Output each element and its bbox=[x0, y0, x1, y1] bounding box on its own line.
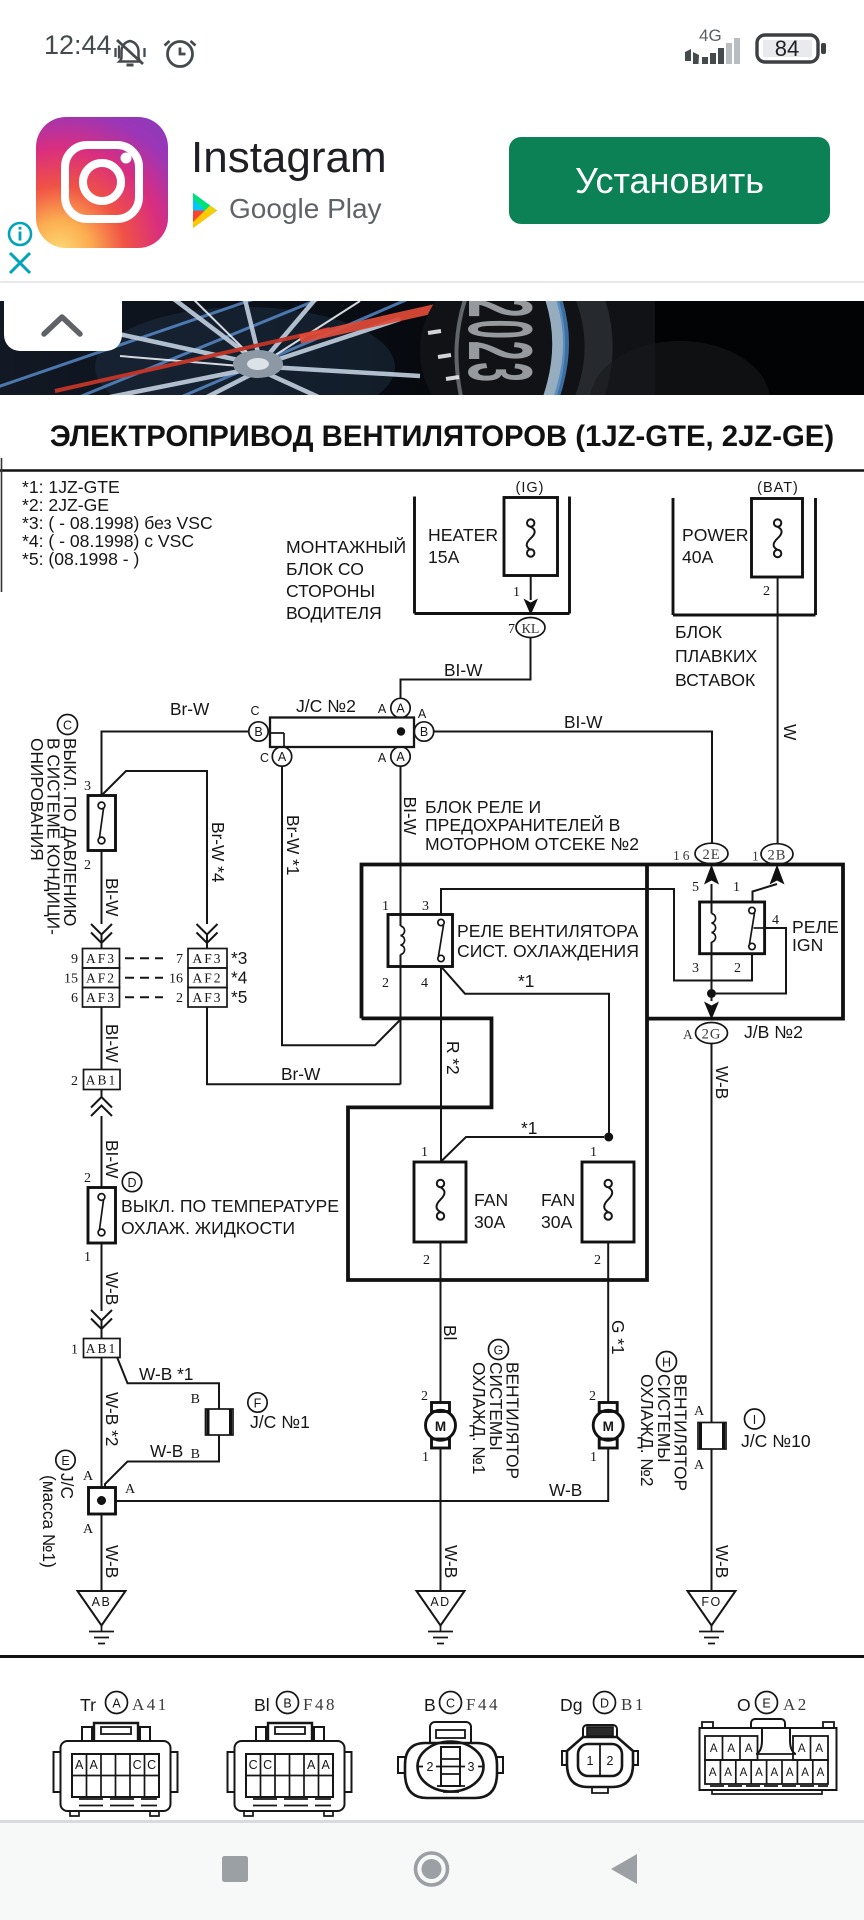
label J/B №2 bbox=[744, 1022, 803, 1042]
frame left edge bbox=[1, 458, 3, 592]
svg-text:*3: *3 bbox=[231, 948, 247, 968]
svg-text:4: 4 bbox=[772, 913, 779, 928]
junction J/C No1 bbox=[191, 1392, 310, 1462]
svg-text:Br-W: Br-W bbox=[170, 699, 210, 719]
svg-text:3: 3 bbox=[422, 899, 429, 914]
svg-text:3: 3 bbox=[468, 1760, 475, 1774]
svg-text:M: M bbox=[603, 1419, 614, 1434]
connector 7 KL bbox=[508, 618, 545, 638]
svg-text:AF3: AF3 bbox=[192, 951, 222, 966]
relay cooling fan bbox=[382, 899, 453, 991]
svg-text:2E: 2E bbox=[702, 847, 720, 863]
fuse POWER 40A bbox=[682, 499, 803, 578]
label ВЕНТИЛЯТОР СИСТЕМЫ ОХЛАЖД. №1 bbox=[469, 1362, 523, 1479]
svg-text:(IG): (IG) bbox=[516, 480, 545, 496]
svg-text:AB1: AB1 bbox=[86, 1341, 118, 1356]
pin 1 of HEATER fuse bbox=[513, 585, 520, 600]
svg-text:1: 1 bbox=[590, 1450, 597, 1465]
chevron arrow into 1 AB1 bbox=[91, 1310, 112, 1339]
junction block J/C2 bbox=[270, 718, 414, 748]
svg-text:B: B bbox=[191, 1447, 200, 1462]
svg-text:*3: ( - 08.1998) без VSC: *3: ( - 08.1998) без VSC bbox=[22, 513, 213, 533]
svg-text:C: C bbox=[133, 1758, 142, 1772]
chevron arrow into AF right bbox=[197, 924, 218, 948]
svg-text:ОХЛАЖ. ЖИДКОСТИ: ОХЛАЖ. ЖИДКОСТИ bbox=[121, 1218, 295, 1238]
wire W-B E to ground AB bbox=[102, 1514, 123, 1591]
svg-text:1: 1 bbox=[590, 1145, 597, 1160]
svg-text:Br-W: Br-W bbox=[281, 1064, 321, 1084]
svg-text:30A: 30A bbox=[474, 1212, 506, 1232]
ground FO bbox=[688, 1591, 736, 1644]
switch C (A/C pressure switch) bbox=[84, 779, 116, 873]
svg-text:БЛОК: БЛОК bbox=[675, 622, 723, 642]
connector B label Bl F48 bbox=[254, 1692, 337, 1716]
wire BI-W AF left pin6 down to AB1 bbox=[102, 1007, 123, 1070]
svg-text:A: A bbox=[378, 751, 387, 765]
svg-text:6: 6 bbox=[71, 991, 78, 1006]
connector E label O A2 bbox=[737, 1692, 809, 1716]
svg-text:W: W bbox=[780, 724, 800, 741]
svg-text:F48: F48 bbox=[303, 1695, 337, 1714]
wire *1 junction to FAN1 fuse bbox=[441, 1118, 604, 1162]
svg-text:1: 1 bbox=[733, 880, 740, 895]
svg-text:BI-W: BI-W bbox=[102, 878, 122, 917]
wire IGN pin4 loop to junction bbox=[716, 928, 786, 994]
svg-text:E: E bbox=[762, 1697, 770, 1711]
svg-text:A: A bbox=[724, 1767, 732, 1779]
svg-text:C: C bbox=[249, 1758, 258, 1772]
svg-text:D: D bbox=[127, 1176, 136, 1190]
svg-text:AF2: AF2 bbox=[192, 971, 222, 986]
svg-text:B: B bbox=[191, 1392, 200, 1407]
svg-text:A: A bbox=[817, 1767, 825, 1779]
svg-text:1: 1 bbox=[587, 1754, 594, 1768]
svg-text:2: 2 bbox=[71, 1074, 78, 1089]
svg-text:*5: (08.1998 - ): *5: (08.1998 - ) bbox=[22, 549, 139, 569]
svg-text:Bl: Bl bbox=[440, 1325, 460, 1340]
svg-text:ЭЛЕКТРОПРИВОД ВЕНТИЛЯТОРОВ (1J: ЭЛЕКТРОПРИВОД ВЕНТИЛЯТОРОВ (1JZ-GTE, 2JZ… bbox=[50, 420, 834, 453]
svg-text:2: 2 bbox=[734, 961, 741, 976]
node (BAT) bbox=[757, 480, 799, 496]
svg-text:A2: A2 bbox=[783, 1695, 809, 1714]
svg-text:*4: ( - 08.1998) с VSC: *4: ( - 08.1998) с VSC bbox=[22, 531, 194, 551]
svg-text:A: A bbox=[755, 1767, 763, 1779]
relay IGN bbox=[700, 902, 839, 955]
info icon bbox=[7, 221, 33, 247]
arrow up into 2B bbox=[770, 865, 785, 885]
svg-text:2B: 2B bbox=[768, 848, 787, 864]
svg-text:E: E bbox=[61, 1454, 69, 1468]
wire BI-W J/C2 A bottom-right down to fan relay pin1 bbox=[400, 766, 420, 914]
svg-text:W-B: W-B bbox=[712, 1545, 732, 1578]
svg-text:J/C №1: J/C №1 bbox=[250, 1412, 310, 1432]
connector C housing bbox=[398, 1722, 503, 1798]
svg-text:*1: *1 bbox=[518, 971, 534, 991]
svg-text:*5: *5 bbox=[231, 987, 247, 1007]
svg-text:W-B: W-B bbox=[102, 1545, 122, 1578]
svg-text:M: M bbox=[435, 1419, 446, 1434]
svg-text:B1: B1 bbox=[621, 1695, 646, 1714]
svg-text:2: 2 bbox=[607, 1754, 614, 1768]
pin 2 of POWER fuse bbox=[763, 584, 770, 599]
pin B left of J/C2 bbox=[249, 704, 268, 741]
svg-text:A: A bbox=[801, 1767, 809, 1779]
connector 1 2B bbox=[752, 844, 793, 865]
svg-text:F44: F44 bbox=[466, 1695, 500, 1714]
svg-text:2: 2 bbox=[421, 1389, 428, 1404]
svg-text:J/C №2: J/C №2 bbox=[296, 696, 356, 716]
svg-text:2: 2 bbox=[84, 858, 91, 873]
svg-text:AF3: AF3 bbox=[86, 990, 116, 1005]
junction dot under IGN relay bbox=[707, 989, 716, 998]
svg-text:AB1: AB1 bbox=[86, 1073, 118, 1088]
svg-text:A: A bbox=[694, 1458, 705, 1473]
svg-text:A: A bbox=[75, 1758, 84, 1772]
svg-text:O: O bbox=[737, 1695, 751, 1715]
svg-text:BI-W: BI-W bbox=[400, 797, 420, 836]
svg-text:A: A bbox=[396, 750, 405, 764]
legend notes bbox=[22, 477, 213, 569]
pin B right of J/C2 bbox=[414, 707, 433, 741]
wire Br-W pressure switch to J/C2 pin B bbox=[102, 699, 249, 796]
svg-text:БЛОК РЕЛЕ И: БЛОК РЕЛЕ И bbox=[425, 797, 541, 817]
fuse HEATER 15A bbox=[428, 498, 558, 576]
pin 1 of IGN relay bbox=[733, 880, 740, 895]
switch D (coolant temperature switch) bbox=[84, 1171, 116, 1265]
fusible link block outline bbox=[673, 498, 816, 615]
wire *1 fan relay pin4 to fans junction bbox=[441, 967, 609, 1138]
svg-text:A: A bbox=[83, 1522, 94, 1537]
connector column AF right (pins 7,16,2) with *3 *4 *5 bbox=[169, 948, 248, 1007]
pin 5 of IGN relay bbox=[692, 880, 699, 895]
svg-text:ПРЕДОХРАНИТЕЛЕЙ В: ПРЕДОХРАНИТЕЛЕЙ В bbox=[425, 814, 620, 835]
dial bbox=[420, 243, 690, 459]
pin A top-right of J/C2 bbox=[378, 698, 410, 717]
svg-text:2: 2 bbox=[423, 1253, 430, 1268]
connector D housing bbox=[562, 1725, 638, 1793]
connector column AF left (pins 9,15,6) bbox=[64, 949, 120, 1008]
svg-text:BI-W: BI-W bbox=[102, 1024, 122, 1063]
svg-text:C: C bbox=[260, 751, 269, 765]
instagram icon bbox=[36, 117, 168, 248]
connector 16 2E bbox=[673, 843, 728, 864]
wire fuse1 to connector KL bbox=[530, 576, 532, 600]
svg-text:BI-W: BI-W bbox=[102, 1140, 122, 1179]
svg-text:G *1: G *1 bbox=[608, 1320, 628, 1355]
svg-text:A: A bbox=[786, 1767, 794, 1779]
svg-text:2: 2 bbox=[427, 1760, 434, 1774]
svg-text:СТОРОНЫ: СТОРОНЫ bbox=[286, 581, 375, 601]
connector E pin letters bbox=[709, 1743, 825, 1779]
svg-text:B: B bbox=[420, 725, 428, 739]
arrow into KL bbox=[524, 599, 539, 616]
google play logo bbox=[193, 193, 221, 228]
svg-text:ВЫКЛ. ПО ТЕМПЕРАТУРЕ: ВЫКЛ. ПО ТЕМПЕРАТУРЕ bbox=[121, 1196, 339, 1216]
wire Br-W *4 from switch pin3 to AF3 *3 bbox=[102, 771, 229, 924]
label J/C (масса №1) bbox=[39, 1473, 77, 1568]
svg-text:F: F bbox=[254, 1397, 262, 1411]
svg-text:1: 1 bbox=[752, 849, 759, 864]
svg-text:C: C bbox=[147, 1758, 156, 1772]
svg-text:4: 4 bbox=[421, 976, 428, 991]
connector D label Dg B1 bbox=[560, 1692, 646, 1716]
wire BI-W J/C2 B right to relay block 2E bbox=[434, 712, 712, 843]
svg-text:1: 1 bbox=[421, 1145, 428, 1160]
pin A bottom-left of J/C2 bbox=[260, 747, 292, 766]
svg-text:ОХЛАЖД. №2: ОХЛАЖД. №2 bbox=[637, 1374, 657, 1486]
wire W-B J/C10 to ground FO bbox=[712, 1449, 733, 1591]
svg-text:МОНТАЖНЫЙ: МОНТАЖНЫЙ bbox=[286, 536, 406, 557]
wire W-B *2 AB1 down to E bbox=[102, 1358, 123, 1488]
svg-text:Tr: Tr bbox=[80, 1695, 96, 1715]
svg-text:Dg: Dg bbox=[560, 1695, 583, 1715]
svg-text:СИСТ. ОХЛАЖДЕНИЯ: СИСТ. ОХЛАЖДЕНИЯ bbox=[457, 941, 639, 961]
svg-text:A: A bbox=[83, 1469, 94, 1484]
svg-text:9: 9 bbox=[71, 952, 78, 967]
svg-text:1: 1 bbox=[71, 1343, 78, 1358]
svg-text:1: 1 bbox=[382, 899, 389, 914]
svg-text:7: 7 bbox=[176, 952, 183, 967]
svg-text:30A: 30A bbox=[541, 1212, 573, 1232]
svg-text:BI-W: BI-W bbox=[444, 660, 483, 680]
svg-text:A: A bbox=[278, 750, 287, 764]
junction E ground point bbox=[83, 1469, 136, 1537]
svg-text:2: 2 bbox=[382, 976, 389, 991]
node (IG) bbox=[516, 480, 545, 496]
label БЛОК РЕЛЕ И ПРЕДОХРАНИТЕЛЕЙ В МОТОРНОМ ОТСЕКЕ №2 bbox=[425, 797, 639, 854]
connector A pin letters bbox=[75, 1758, 156, 1772]
junction J/C No10 bbox=[694, 1404, 811, 1473]
ground AB bbox=[78, 1591, 126, 1644]
node C label circle bbox=[58, 715, 78, 735]
wire W-B motor1 to ground AD bbox=[441, 1448, 462, 1591]
svg-text:J/B №2: J/B №2 bbox=[744, 1022, 803, 1042]
svg-text:ОНИРОВАНИЯ: ОНИРОВАНИЯ bbox=[27, 738, 47, 861]
connector A 2G bbox=[683, 1023, 728, 1044]
dashed links between AF columns bbox=[125, 958, 163, 997]
label J/C №2 bbox=[296, 696, 356, 716]
svg-text:2: 2 bbox=[763, 584, 770, 599]
wire fan relay pin2 down to Br-W bbox=[400, 967, 402, 1085]
node H label circle bbox=[657, 1352, 677, 1372]
svg-text:B: B bbox=[283, 1697, 291, 1711]
svg-text:A: A bbox=[322, 1758, 331, 1772]
svg-text:1: 1 bbox=[84, 1250, 91, 1265]
connector A label Tr A41 bbox=[80, 1692, 169, 1716]
svg-text:A: A bbox=[112, 1697, 121, 1711]
svg-text:C: C bbox=[263, 1758, 272, 1772]
svg-text:W-B *2: W-B *2 bbox=[102, 1392, 122, 1446]
svg-text:*1: *1 bbox=[521, 1118, 537, 1138]
connector 1 AB1 bbox=[71, 1339, 120, 1358]
pin 3 of IGN relay bbox=[692, 961, 699, 976]
arrow down to 2G bbox=[704, 1002, 719, 1020]
connector E housing bbox=[700, 1719, 837, 1794]
svg-text:J/C: J/C bbox=[57, 1473, 77, 1499]
svg-text:W-B: W-B bbox=[712, 1066, 732, 1099]
wire BI-W J/C2 A top-right up bbox=[400, 680, 402, 699]
svg-text:I: I bbox=[753, 1413, 756, 1427]
svg-text:FO: FO bbox=[701, 1595, 721, 1609]
svg-text:A: A bbox=[90, 1758, 99, 1772]
node E label circle bbox=[56, 1450, 75, 1469]
svg-text:W-B: W-B bbox=[150, 1441, 183, 1461]
svg-text:B: B bbox=[254, 725, 262, 739]
svg-text:A: A bbox=[396, 702, 405, 716]
wire Br-W *1 J/C2 A bottom-left down bbox=[282, 766, 401, 1045]
node I label circle bbox=[745, 1409, 765, 1429]
driver-side junction block outline bbox=[415, 497, 570, 614]
wire BI-W down to switch D bbox=[102, 1126, 123, 1187]
label ВЫКЛ. ПО ДАВЛЕНИЮ В СИСТЕМЕ КОНДИЦИ-ОНИРОВАНИЯ bbox=[27, 738, 80, 935]
wire Br-W from AF right pin2 to fan relay pin2 bbox=[207, 1007, 401, 1084]
wire IGN coil pin3 down to junction bbox=[711, 954, 713, 1001]
svg-text:РЕЛЕ: РЕЛЕ bbox=[792, 917, 839, 937]
svg-text:W-B: W-B bbox=[549, 1480, 582, 1500]
svg-text:МОТОРНОМ ОТСЕКЕ №2: МОТОРНОМ ОТСЕКЕ №2 bbox=[425, 834, 639, 854]
node D label circle bbox=[122, 1172, 141, 1191]
wire 2E to IGN relay coil bbox=[711, 884, 713, 902]
connector C label B F44 bbox=[424, 1692, 500, 1716]
svg-text:W-B: W-B bbox=[441, 1545, 461, 1578]
svg-text:C: C bbox=[250, 704, 259, 718]
svg-text:2: 2 bbox=[176, 991, 183, 1006]
svg-text:HEATER: HEATER bbox=[428, 525, 498, 545]
wire W-B ground bus from E to motor2 bbox=[116, 1448, 609, 1501]
svg-text:Br-W *1: Br-W *1 bbox=[283, 815, 303, 875]
label ВЫКЛ. ПО ТЕМПЕРАТУРЕ ОХЛАЖ. ЖИДКОСТИ bbox=[121, 1196, 339, 1238]
svg-text:A: A bbox=[694, 1404, 705, 1419]
svg-text:84: 84 bbox=[775, 36, 799, 61]
svg-text:A: A bbox=[418, 707, 427, 721]
svg-text:AF2: AF2 bbox=[86, 971, 116, 986]
wire G *1 FAN2 fuse to motor2 bbox=[608, 1242, 628, 1402]
svg-text:5: 5 bbox=[692, 880, 699, 895]
svg-text:J/C №10: J/C №10 bbox=[741, 1431, 811, 1451]
svg-text:C: C bbox=[446, 1697, 455, 1711]
svg-text:POWER: POWER bbox=[682, 525, 748, 545]
wire BI-W switch pin2 down bbox=[102, 851, 123, 925]
svg-text:AB: AB bbox=[92, 1595, 112, 1609]
svg-text:РЕЛЕ ВЕНТИЛЯТОРА: РЕЛЕ ВЕНТИЛЯТОРА bbox=[457, 921, 639, 941]
svg-text:*1: 1JZ-GTE: *1: 1JZ-GTE bbox=[22, 477, 120, 497]
close icon bbox=[8, 251, 32, 275]
svg-text:7: 7 bbox=[508, 622, 515, 637]
fuse FAN 30A no1 bbox=[414, 1145, 508, 1268]
install button bbox=[509, 137, 830, 224]
connector B pin letters bbox=[249, 1758, 331, 1772]
svg-text:2G: 2G bbox=[702, 1027, 722, 1043]
pin A bottom-right of J/C2 bbox=[378, 747, 410, 766]
junction dot fans bbox=[604, 1133, 613, 1142]
svg-text:ВОДИТЕЛЯ: ВОДИТЕЛЯ bbox=[286, 603, 382, 623]
svg-text:2: 2 bbox=[84, 1171, 91, 1186]
svg-text:Br-W *4: Br-W *4 bbox=[208, 822, 228, 883]
svg-text:A: A bbox=[727, 1743, 735, 1755]
collapse chevron card bbox=[4, 296, 122, 351]
svg-text:AD: AD bbox=[430, 1595, 450, 1609]
svg-text:A: A bbox=[683, 1027, 693, 1042]
wire BI-W from KL to J/C2 pin A bbox=[401, 638, 531, 700]
motor M fan1 bbox=[421, 1389, 456, 1465]
motor M fan2 bbox=[589, 1389, 623, 1465]
connector C pin numbers bbox=[427, 1760, 475, 1774]
svg-text:A: A bbox=[815, 1743, 823, 1755]
svg-text:A: A bbox=[378, 702, 387, 716]
frame top rule bbox=[0, 469, 864, 472]
svg-text:1: 1 bbox=[513, 585, 520, 600]
svg-text:A: A bbox=[125, 1482, 136, 1497]
junction dot in J/C2 bbox=[397, 727, 405, 735]
relay and fuse block No2 outline bbox=[348, 865, 843, 1281]
svg-text:(масса №1): (масса №1) bbox=[39, 1475, 59, 1568]
label МОНТАЖНЫЙ БЛОК СО СТОРОНЫ ВОДИТЕЛЯ bbox=[286, 536, 406, 623]
svg-text:A: A bbox=[770, 1767, 778, 1779]
svg-text:ОХЛАЖД. №1: ОХЛАЖД. №1 bbox=[469, 1362, 489, 1474]
connector A housing bbox=[54, 1723, 178, 1816]
wire W-B switch D pin1 down to AB1 bbox=[102, 1243, 123, 1311]
svg-text:B: B bbox=[424, 1695, 436, 1715]
svg-text:C: C bbox=[63, 719, 72, 733]
svg-text:2023: 2023 bbox=[449, 301, 551, 384]
svg-text:A: A bbox=[710, 1743, 718, 1755]
pin 2 of IGN relay bbox=[734, 961, 741, 976]
title bbox=[50, 420, 834, 453]
svg-text:16: 16 bbox=[169, 972, 183, 987]
svg-text:AF3: AF3 bbox=[192, 990, 222, 1005]
ground AD bbox=[417, 1591, 465, 1644]
connector 1 AB1 to J/C1 wire W-B *1 bbox=[117, 1357, 219, 1409]
svg-text:BI-W: BI-W bbox=[564, 712, 603, 732]
wire 2B to IGN relay pin1 bbox=[753, 884, 778, 902]
svg-text:(BAT): (BAT) bbox=[757, 480, 799, 496]
wire R *2 fan relay pin4 down to FAN fuse bbox=[441, 967, 463, 1162]
svg-text:БЛОК СО: БЛОК СО bbox=[286, 559, 364, 579]
node F label circle bbox=[248, 1393, 267, 1412]
svg-text:FAN: FAN bbox=[474, 1190, 508, 1210]
chevron arrow into AF left bbox=[91, 924, 112, 948]
svg-text:*4: *4 bbox=[231, 968, 248, 988]
svg-text:A: A bbox=[745, 1743, 753, 1755]
svg-text:H: H bbox=[662, 1356, 671, 1370]
connector D pin numbers bbox=[587, 1754, 614, 1768]
bottom double rule bbox=[0, 1655, 864, 1658]
svg-text:A: A bbox=[307, 1758, 316, 1772]
svg-text:G: G bbox=[494, 1344, 504, 1358]
label БЛОК ПЛАВКИХ ВСТАВОК bbox=[675, 622, 758, 690]
svg-text:AF3: AF3 bbox=[86, 951, 116, 966]
svg-text:Bl: Bl bbox=[254, 1695, 270, 1715]
svg-text:A: A bbox=[709, 1767, 717, 1779]
svg-text:ВСТАВОК: ВСТАВОК bbox=[675, 670, 756, 690]
wire W power fuse to 2B bbox=[778, 577, 800, 844]
svg-text:IGN: IGN bbox=[792, 935, 823, 955]
wire Bl FAN1 fuse to motor1 bbox=[440, 1242, 460, 1402]
svg-text:2: 2 bbox=[589, 1389, 596, 1404]
svg-text:A: A bbox=[740, 1767, 748, 1779]
svg-text:A: A bbox=[798, 1743, 806, 1755]
svg-text:ПЛАВКИХ: ПЛАВКИХ bbox=[675, 646, 758, 666]
connector 2 AB1 bbox=[71, 1070, 120, 1090]
svg-text:40A: 40A bbox=[682, 547, 714, 567]
svg-text:16: 16 bbox=[673, 848, 693, 863]
svg-text:3: 3 bbox=[84, 779, 91, 794]
wire fan relay pin3 to IGN pin2 bbox=[441, 889, 752, 981]
arrow up into 2E bbox=[704, 865, 719, 885]
svg-text:15: 15 bbox=[64, 972, 78, 987]
svg-text:R *2: R *2 bbox=[443, 1041, 463, 1075]
fuse FAN 30A no2 bbox=[541, 1145, 634, 1268]
